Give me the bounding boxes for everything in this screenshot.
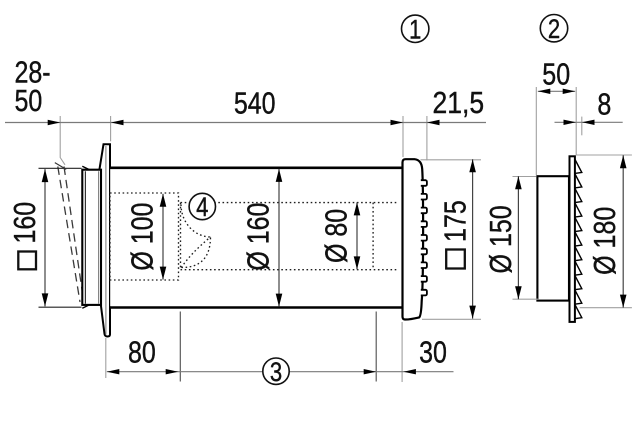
svg-text:1: 1 [409,15,421,45]
svg-text:540: 540 [234,86,276,120]
svg-text:50: 50 [15,84,43,118]
svg-text:Ø 160: Ø 160 [241,203,275,271]
svg-text:Ø 80: Ø 80 [319,209,353,263]
svg-text:8: 8 [597,87,611,121]
svg-text:Ø 150: Ø 150 [483,205,517,273]
svg-text:2: 2 [548,15,560,45]
svg-text:160: 160 [8,202,42,244]
svg-text:30: 30 [419,335,447,369]
svg-text:Ø 100: Ø 100 [125,203,159,271]
svg-text:50: 50 [542,57,570,91]
svg-text:Ø 180: Ø 180 [587,207,621,275]
svg-text:175: 175 [438,200,472,242]
svg-text:3: 3 [270,358,282,388]
svg-text:4: 4 [196,193,208,223]
svg-text:80: 80 [128,335,156,369]
svg-text:21,5: 21,5 [432,86,484,120]
